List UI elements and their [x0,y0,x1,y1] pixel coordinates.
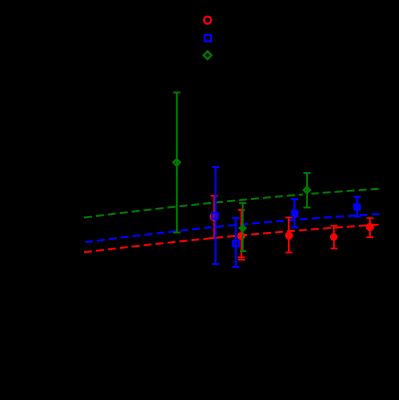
marker red filled circle R2 [237,232,245,240]
errorbar red R4 [331,226,338,249]
errorbar blue B3 [232,218,239,267]
legend marker green open diamond [204,51,212,59]
errorbar green G2 [239,203,246,251]
marker blue filled square B4 [353,203,361,211]
errorbar red R1 [211,196,218,238]
marker green open diamond G3 [304,187,310,193]
errorbar red R2 [238,210,245,257]
marker blue open square B1 [212,213,218,219]
trend line red dashed [84,225,381,253]
errorbar red R3 [285,218,292,253]
occluder under green diamond G3 [303,193,312,198]
errorbar green G1 [173,93,180,233]
trend line green dashed [84,189,381,218]
legend marker red open circle [204,17,211,24]
errorbar blue B1 [212,167,219,264]
errorbar green G3 [303,173,310,208]
legend marker blue open square [205,35,211,41]
trend line blue dashed [85,214,381,242]
marker red filled circle R3 [285,232,293,240]
errorbar blue B2 [291,199,298,228]
marker red filled circle R5 [366,223,374,231]
marker green open diamond G2 [240,225,246,231]
marker blue open square B3 [233,241,239,247]
errorbar blue B4 [354,197,361,217]
errorbar red R5 [367,218,374,237]
marker red open circle R1 [211,213,218,220]
red cap fragment below R2 [238,259,245,261]
marker red filled circle R4 [330,233,338,241]
marker blue filled square B2 [291,210,298,217]
marker green open diamond G1 [173,159,180,166]
